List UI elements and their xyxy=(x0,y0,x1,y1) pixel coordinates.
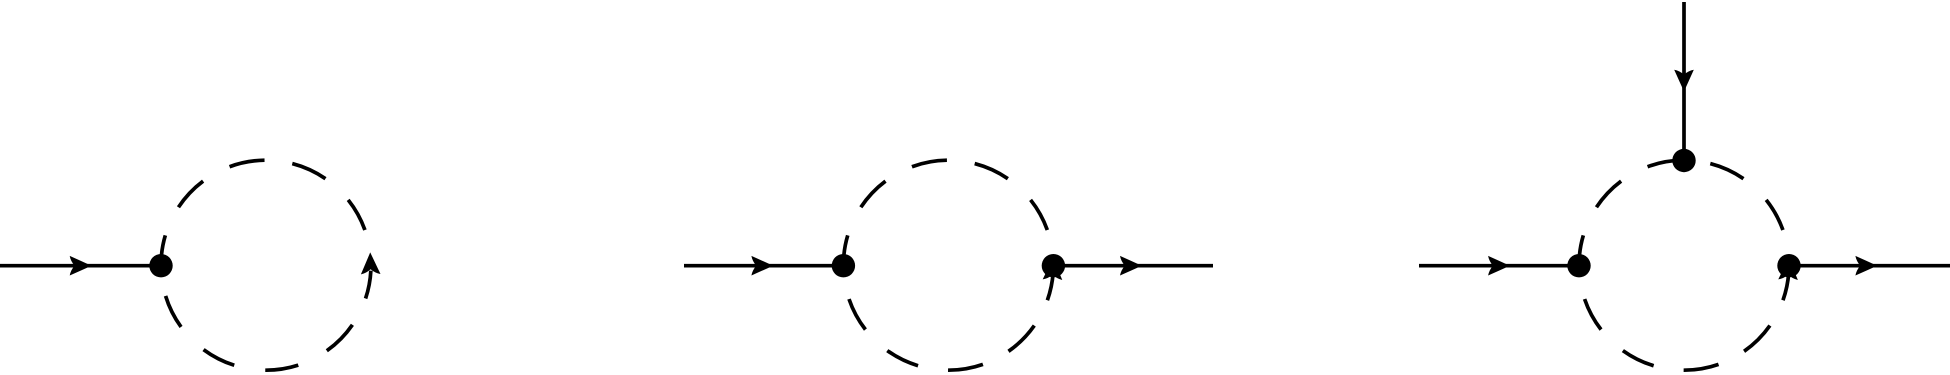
wire: dashed loop segment C3.7 xyxy=(1684,364,1719,370)
wire: dashed loop segment C2.9 xyxy=(849,299,865,330)
vertex dot V2b (right), diagram 2 xyxy=(1042,254,1065,277)
wire: external vertical line, diagram 3 xyxy=(1682,2,1686,161)
arrowhead on incoming line, diagram 3 xyxy=(1488,256,1510,276)
wire: dashed loop segment C1.6 xyxy=(327,325,353,351)
arrow on loop C2 (head hidden under vertex) (shaft) xyxy=(1047,273,1053,301)
wire: outgoing propagator line, diagram 3 xyxy=(1789,264,1950,268)
wire: dashed loop segment C3.9 xyxy=(1585,299,1601,330)
wire: dashed loop segment C2.5 xyxy=(1031,200,1048,230)
wire: dashed loop segment C2.7 xyxy=(948,364,983,370)
wire: dashed loop segment C1.1 xyxy=(161,235,165,265)
wire: dashed loop segment C3.4 xyxy=(1710,164,1743,179)
wire: dashed loop segment C3.2 xyxy=(1596,181,1621,207)
vertex dot V3c (top), diagram 3 xyxy=(1672,149,1695,172)
wire: dashed loop segment C1.8 xyxy=(204,350,235,366)
wire: dashed loop segment C3.3 xyxy=(1648,160,1683,167)
wire: dashed loop segment C1.7 xyxy=(265,365,298,370)
arrowhead on vertical line, diagram 3 xyxy=(1674,70,1694,92)
wire: dashed loop segment C2.4 xyxy=(975,164,1008,179)
wire: incoming propagator line, diagram 2 xyxy=(684,264,843,268)
arrow on loop C3 (head hidden under vertex) (shaft) xyxy=(1783,273,1789,301)
arrow on loop C1 (shaft) xyxy=(366,271,371,299)
wire: dashed loop segment C1.4 xyxy=(292,164,325,179)
arrowhead on outgoing line, diagram 3 xyxy=(1855,256,1877,276)
wire: dashed loop segment C2.8 xyxy=(887,351,918,366)
arrow on loop C1 (head) xyxy=(361,252,381,274)
wire: dashed loop segment C2.2 xyxy=(861,181,886,207)
vertex dot V3b (right), diagram 3 xyxy=(1777,254,1800,277)
wire: incoming propagator line, diagram 3 xyxy=(1419,264,1579,268)
wire: incoming propagator line, diagram 1 xyxy=(0,264,161,268)
wire: dashed loop segment C3.8 xyxy=(1623,351,1654,366)
wire: dashed loop segment C1.9 xyxy=(166,296,181,327)
arrowhead on incoming line, diagram 1 xyxy=(70,256,92,276)
vertex dot V1, diagram 1 xyxy=(149,254,172,277)
arrow on loop C2 (head hidden under vertex) (head) xyxy=(1043,258,1063,280)
arrowhead on incoming line, diagram 2 xyxy=(751,256,773,276)
wire: dashed loop segment C2.3 xyxy=(912,160,947,167)
wire: dashed loop segment C2.6 xyxy=(1008,326,1034,352)
wire: outgoing propagator line, diagram 2 xyxy=(1053,264,1213,268)
vertex dot V3a (left), diagram 3 xyxy=(1567,254,1590,277)
wire: dashed loop segment C3.6 xyxy=(1744,326,1770,352)
wire: dashed loop segment C1.3 xyxy=(230,160,265,167)
vertex dot V2a (left), diagram 2 xyxy=(832,254,855,277)
wire: dashed loop segment C1.2 xyxy=(178,181,203,207)
arrow on loop C3 (head hidden under vertex) (head) xyxy=(1778,258,1798,280)
wire: dashed loop segment C2.1 xyxy=(843,235,847,265)
arrowhead on outgoing line, diagram 2 xyxy=(1120,256,1142,276)
wire: dashed loop segment C1.5 xyxy=(348,200,365,230)
wire: dashed loop segment C3.1 xyxy=(1579,235,1583,265)
wire: dashed loop segment C3.5 xyxy=(1766,200,1783,230)
